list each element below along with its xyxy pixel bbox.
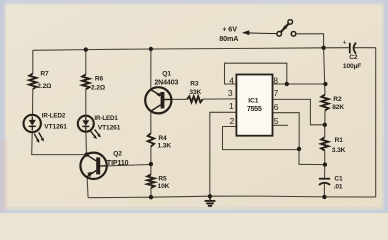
svg-text:Q1: Q1 xyxy=(162,71,171,78)
wire left branch top (rail corner down to R7) xyxy=(32,50,34,73)
wire IC pin 6 down to trigger node xyxy=(273,113,300,149)
resistor R4 xyxy=(148,133,154,146)
resistor R3 xyxy=(187,96,203,102)
wire R7 to IR-LED2 xyxy=(32,89,34,115)
wire Q2 emitter to bottom rail corner xyxy=(87,177,88,198)
svg-text:2: 2 xyxy=(230,116,235,126)
wire IR-LED1 cathode down to junction xyxy=(85,132,88,155)
wire bottom ground rail xyxy=(88,196,375,198)
wire R2 to R1 node xyxy=(324,111,326,125)
IR LED2 VT1261 xyxy=(24,115,45,143)
svg-text:80mA: 80mA xyxy=(219,34,238,43)
wire R5 to bottom rail xyxy=(150,188,152,197)
wire switch to supply rail xyxy=(296,34,324,48)
node supply/switch/C2 xyxy=(321,46,325,50)
wire right rail vertical xyxy=(375,48,377,197)
svg-text:1.3K: 1.3K xyxy=(158,142,172,149)
wire IR-LED2 cathode down and right to Q2 collector node xyxy=(32,132,87,154)
wire IC pin 8 to supply node xyxy=(273,83,326,85)
svg-text:R5: R5 xyxy=(158,176,167,183)
svg-text:2.2Ω: 2.2Ω xyxy=(91,84,106,91)
node C1 ground rail xyxy=(322,195,326,199)
svg-text:+: + xyxy=(343,39,347,46)
resistor R5 xyxy=(147,175,154,189)
svg-text:TIP110: TIP110 xyxy=(107,160,129,167)
svg-text:2N4403: 2N4403 xyxy=(154,80,178,87)
wire Q1 base to R3 xyxy=(172,98,188,100)
svg-text:C1: C1 xyxy=(334,176,343,183)
svg-text:R1: R1 xyxy=(335,137,344,144)
node R5 ground rail xyxy=(149,195,153,199)
svg-text:C2: C2 xyxy=(349,54,358,61)
wire IC pin 5 stub xyxy=(273,124,289,126)
svg-text:33K: 33K xyxy=(189,89,201,96)
node LED junction Q2 collector xyxy=(84,152,88,156)
wire top rail from C2 to right rail xyxy=(353,47,376,49)
node pin2 pin6 xyxy=(297,147,301,151)
capacitor C1 xyxy=(319,179,330,185)
wire R1 node to R1 xyxy=(324,125,326,138)
transistor Q2 TIP110 xyxy=(80,153,106,179)
wire supply rail down to R2 xyxy=(324,48,325,95)
transistor Q1 2N4403 xyxy=(145,87,171,113)
svg-text:VT1261: VT1261 xyxy=(44,123,67,130)
node R6 top xyxy=(84,47,88,51)
svg-text:8: 8 xyxy=(273,76,278,86)
svg-text:7: 7 xyxy=(274,88,279,98)
svg-text:Q2: Q2 xyxy=(113,151,122,158)
resistor R2 xyxy=(321,95,328,111)
wire Q1 collector down to R4 xyxy=(150,111,152,133)
svg-text:1: 1 xyxy=(229,101,234,111)
resistor R7 xyxy=(29,74,36,90)
wire IC pin 7 to R1/R2 node xyxy=(273,99,325,124)
wire Q2 base to R4/R5 node xyxy=(107,165,151,166)
IR LED1 VT1261 xyxy=(78,116,101,139)
svg-text:.01: .01 xyxy=(334,183,343,190)
svg-text:+ 6V: + 6V xyxy=(222,25,237,34)
switch S1 xyxy=(277,20,296,36)
wire C1 node to C1 xyxy=(324,165,326,179)
svg-text:2.2Ω: 2.2Ω xyxy=(37,83,52,90)
ground symbol xyxy=(205,196,216,206)
node pin8 rail xyxy=(323,82,327,86)
svg-text:R6: R6 xyxy=(95,76,104,83)
svg-text:6: 6 xyxy=(274,102,279,112)
svg-text:R2: R2 xyxy=(333,96,342,103)
resistor R1 xyxy=(321,137,328,150)
wire R6 branch from rail xyxy=(85,50,87,75)
svg-text:10K: 10K xyxy=(158,183,170,190)
resistor R6 xyxy=(82,75,89,90)
wire R1 to C1 node xyxy=(324,151,326,165)
wire trigger node to R1/C1 node xyxy=(299,149,325,165)
capacitor C2 xyxy=(350,43,356,54)
node pin7 R1 R2 xyxy=(323,123,327,127)
svg-text:R7: R7 xyxy=(40,71,49,78)
svg-text:3.3K: 3.3K xyxy=(332,147,346,154)
IC IC1 7555 body xyxy=(236,75,272,136)
node ground xyxy=(208,194,212,198)
wire R6 to IR-LED1 xyxy=(85,89,87,115)
svg-text:5: 5 xyxy=(274,116,279,126)
svg-text:VT1261: VT1261 xyxy=(98,124,121,131)
node pin4 pin8 xyxy=(285,82,289,86)
svg-text:82K: 82K xyxy=(332,104,344,111)
svg-text:IR-LED1: IR-LED1 xyxy=(94,115,118,122)
supply arrow xyxy=(242,30,277,35)
wire top supply rail xyxy=(33,48,349,51)
wire Q1 emitter to top rail xyxy=(150,49,152,90)
svg-text:4: 4 xyxy=(229,75,234,85)
wire IC pin 2 to trigger node xyxy=(223,127,300,150)
wire R4 to base node xyxy=(150,147,152,175)
wire IC pin 1 to ground xyxy=(210,112,237,196)
wire C1 to bottom rail xyxy=(323,184,325,197)
node Q1 emitter rail xyxy=(149,47,153,51)
svg-text:100µF: 100µF xyxy=(343,63,361,70)
svg-text:3: 3 xyxy=(228,88,233,98)
wire R3 to IC pin 3 xyxy=(203,98,237,100)
svg-text:R3: R3 xyxy=(190,81,199,88)
svg-text:R4: R4 xyxy=(158,135,167,142)
svg-text:IR-LED2: IR-LED2 xyxy=(42,113,66,120)
node R1 C1 xyxy=(323,162,327,166)
svg-text:7555: 7555 xyxy=(247,104,262,113)
wire IC pin 4 link over top to pin 8 xyxy=(225,63,287,84)
node R4 R5 base xyxy=(149,162,153,166)
